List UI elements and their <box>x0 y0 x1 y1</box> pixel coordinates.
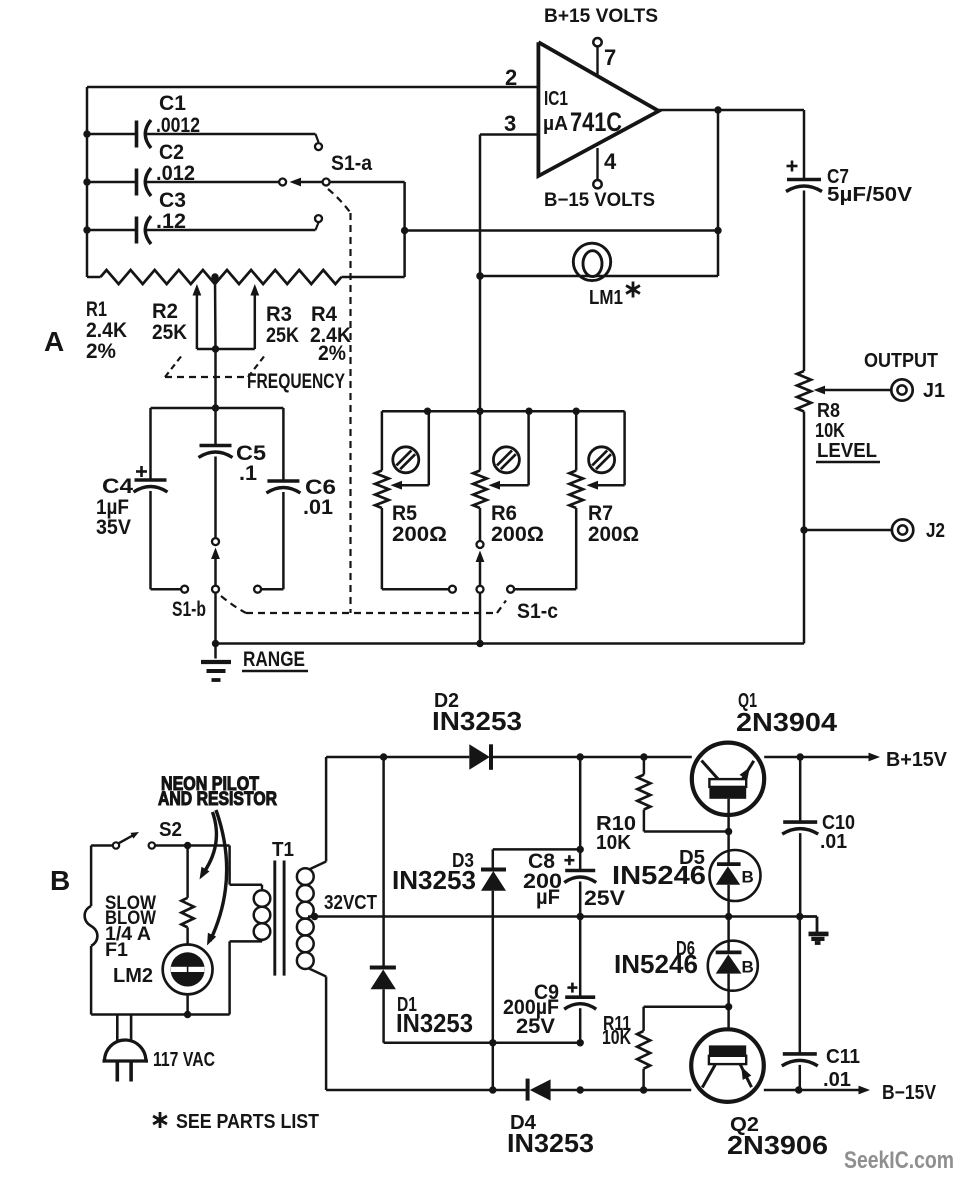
svg-text:200Ω: 200Ω <box>392 523 447 546</box>
svg-text:2N3906: 2N3906 <box>727 1130 828 1160</box>
svg-text:IN3253: IN3253 <box>507 1128 594 1158</box>
svg-text:C2: C2 <box>159 141 184 164</box>
svg-text:10K: 10K <box>596 832 632 854</box>
svg-text:B+15 VOLTS: B+15 VOLTS <box>544 6 658 27</box>
svg-text:S1-c: S1-c <box>517 600 558 623</box>
svg-text:5µF/50V: 5µF/50V <box>827 184 913 206</box>
svg-text:10K: 10K <box>602 1027 631 1049</box>
svg-text:S2: S2 <box>159 819 182 841</box>
svg-text:3: 3 <box>504 111 516 136</box>
svg-text:.01: .01 <box>303 496 333 519</box>
svg-text:IC1: IC1 <box>544 88 568 110</box>
svg-text:R5: R5 <box>392 502 417 525</box>
svg-text:LEVEL: LEVEL <box>817 440 877 462</box>
svg-text:R8: R8 <box>817 400 840 422</box>
svg-text:2: 2 <box>505 65 517 90</box>
svg-text:R2: R2 <box>152 300 178 323</box>
svg-text:R6: R6 <box>491 502 517 525</box>
svg-text:.1: .1 <box>239 462 257 485</box>
svg-text:C3: C3 <box>159 189 186 212</box>
svg-text:B−15 VOLTS: B−15 VOLTS <box>544 190 655 211</box>
svg-text:IN5246: IN5246 <box>612 860 706 890</box>
svg-text:RANGE: RANGE <box>243 648 305 671</box>
svg-text:32VCT: 32VCT <box>324 892 377 914</box>
svg-text:.0012: .0012 <box>156 114 200 137</box>
svg-text:2N3904: 2N3904 <box>736 707 838 737</box>
svg-text:A: A <box>44 326 64 357</box>
svg-text:4: 4 <box>604 149 617 174</box>
svg-text:2%: 2% <box>86 340 116 363</box>
svg-text:IN3253: IN3253 <box>432 706 522 736</box>
svg-text:B+15V: B+15V <box>886 749 948 771</box>
svg-text:SeekIC.com: SeekIC.com <box>844 1147 954 1174</box>
svg-text:SEE PARTS LIST: SEE PARTS LIST <box>176 1111 319 1133</box>
svg-text:25K: 25K <box>152 321 187 344</box>
svg-text:25V: 25V <box>516 1015 555 1038</box>
svg-text:S1-a: S1-a <box>331 152 372 175</box>
svg-text:IN5246: IN5246 <box>614 949 698 979</box>
svg-text:B: B <box>742 868 754 887</box>
svg-text:J2: J2 <box>926 520 945 542</box>
svg-text:7: 7 <box>604 45 616 70</box>
svg-text:C1: C1 <box>159 92 186 115</box>
svg-text:R7: R7 <box>588 502 613 525</box>
svg-text:C4: C4 <box>102 475 133 498</box>
svg-text:.01: .01 <box>823 1069 851 1091</box>
svg-text:C11: C11 <box>826 1046 860 1068</box>
svg-text:S1-b: S1-b <box>172 598 206 621</box>
svg-text:.012: .012 <box>156 162 195 185</box>
svg-text:F1: F1 <box>105 940 128 961</box>
svg-text:R3: R3 <box>266 303 292 326</box>
svg-text:2%: 2% <box>318 342 346 365</box>
svg-text:AND RESISTOR: AND RESISTOR <box>158 789 277 810</box>
svg-text:200Ω: 200Ω <box>588 523 639 546</box>
svg-text:741C: 741C <box>570 107 622 137</box>
svg-text:.12: .12 <box>156 210 186 233</box>
svg-text:IN3253: IN3253 <box>392 865 476 895</box>
svg-text:LM2: LM2 <box>113 965 153 987</box>
svg-text:.01: .01 <box>820 831 847 853</box>
svg-text:LM1: LM1 <box>589 287 623 309</box>
svg-text:R1: R1 <box>86 298 107 321</box>
svg-text:117 VAC: 117 VAC <box>153 1049 215 1071</box>
svg-text:µF: µF <box>536 886 560 909</box>
svg-text:µA: µA <box>543 113 568 135</box>
svg-text:35V: 35V <box>96 516 131 539</box>
svg-text:B: B <box>742 958 754 977</box>
svg-text:B−15V: B−15V <box>882 1082 937 1104</box>
svg-text:25K: 25K <box>266 324 299 347</box>
svg-text:25V: 25V <box>584 887 625 910</box>
svg-text:OUTPUT: OUTPUT <box>864 350 938 372</box>
svg-text:200Ω: 200Ω <box>491 523 544 546</box>
svg-text:2.4K: 2.4K <box>86 319 127 342</box>
svg-text:R4: R4 <box>311 303 337 326</box>
svg-text:T1: T1 <box>272 839 294 861</box>
svg-text:IN3253: IN3253 <box>396 1008 473 1038</box>
svg-text:J1: J1 <box>923 380 945 402</box>
svg-text:B: B <box>50 865 70 896</box>
svg-text:FREQUENCY: FREQUENCY <box>247 370 345 393</box>
svg-text:10K: 10K <box>815 420 845 442</box>
